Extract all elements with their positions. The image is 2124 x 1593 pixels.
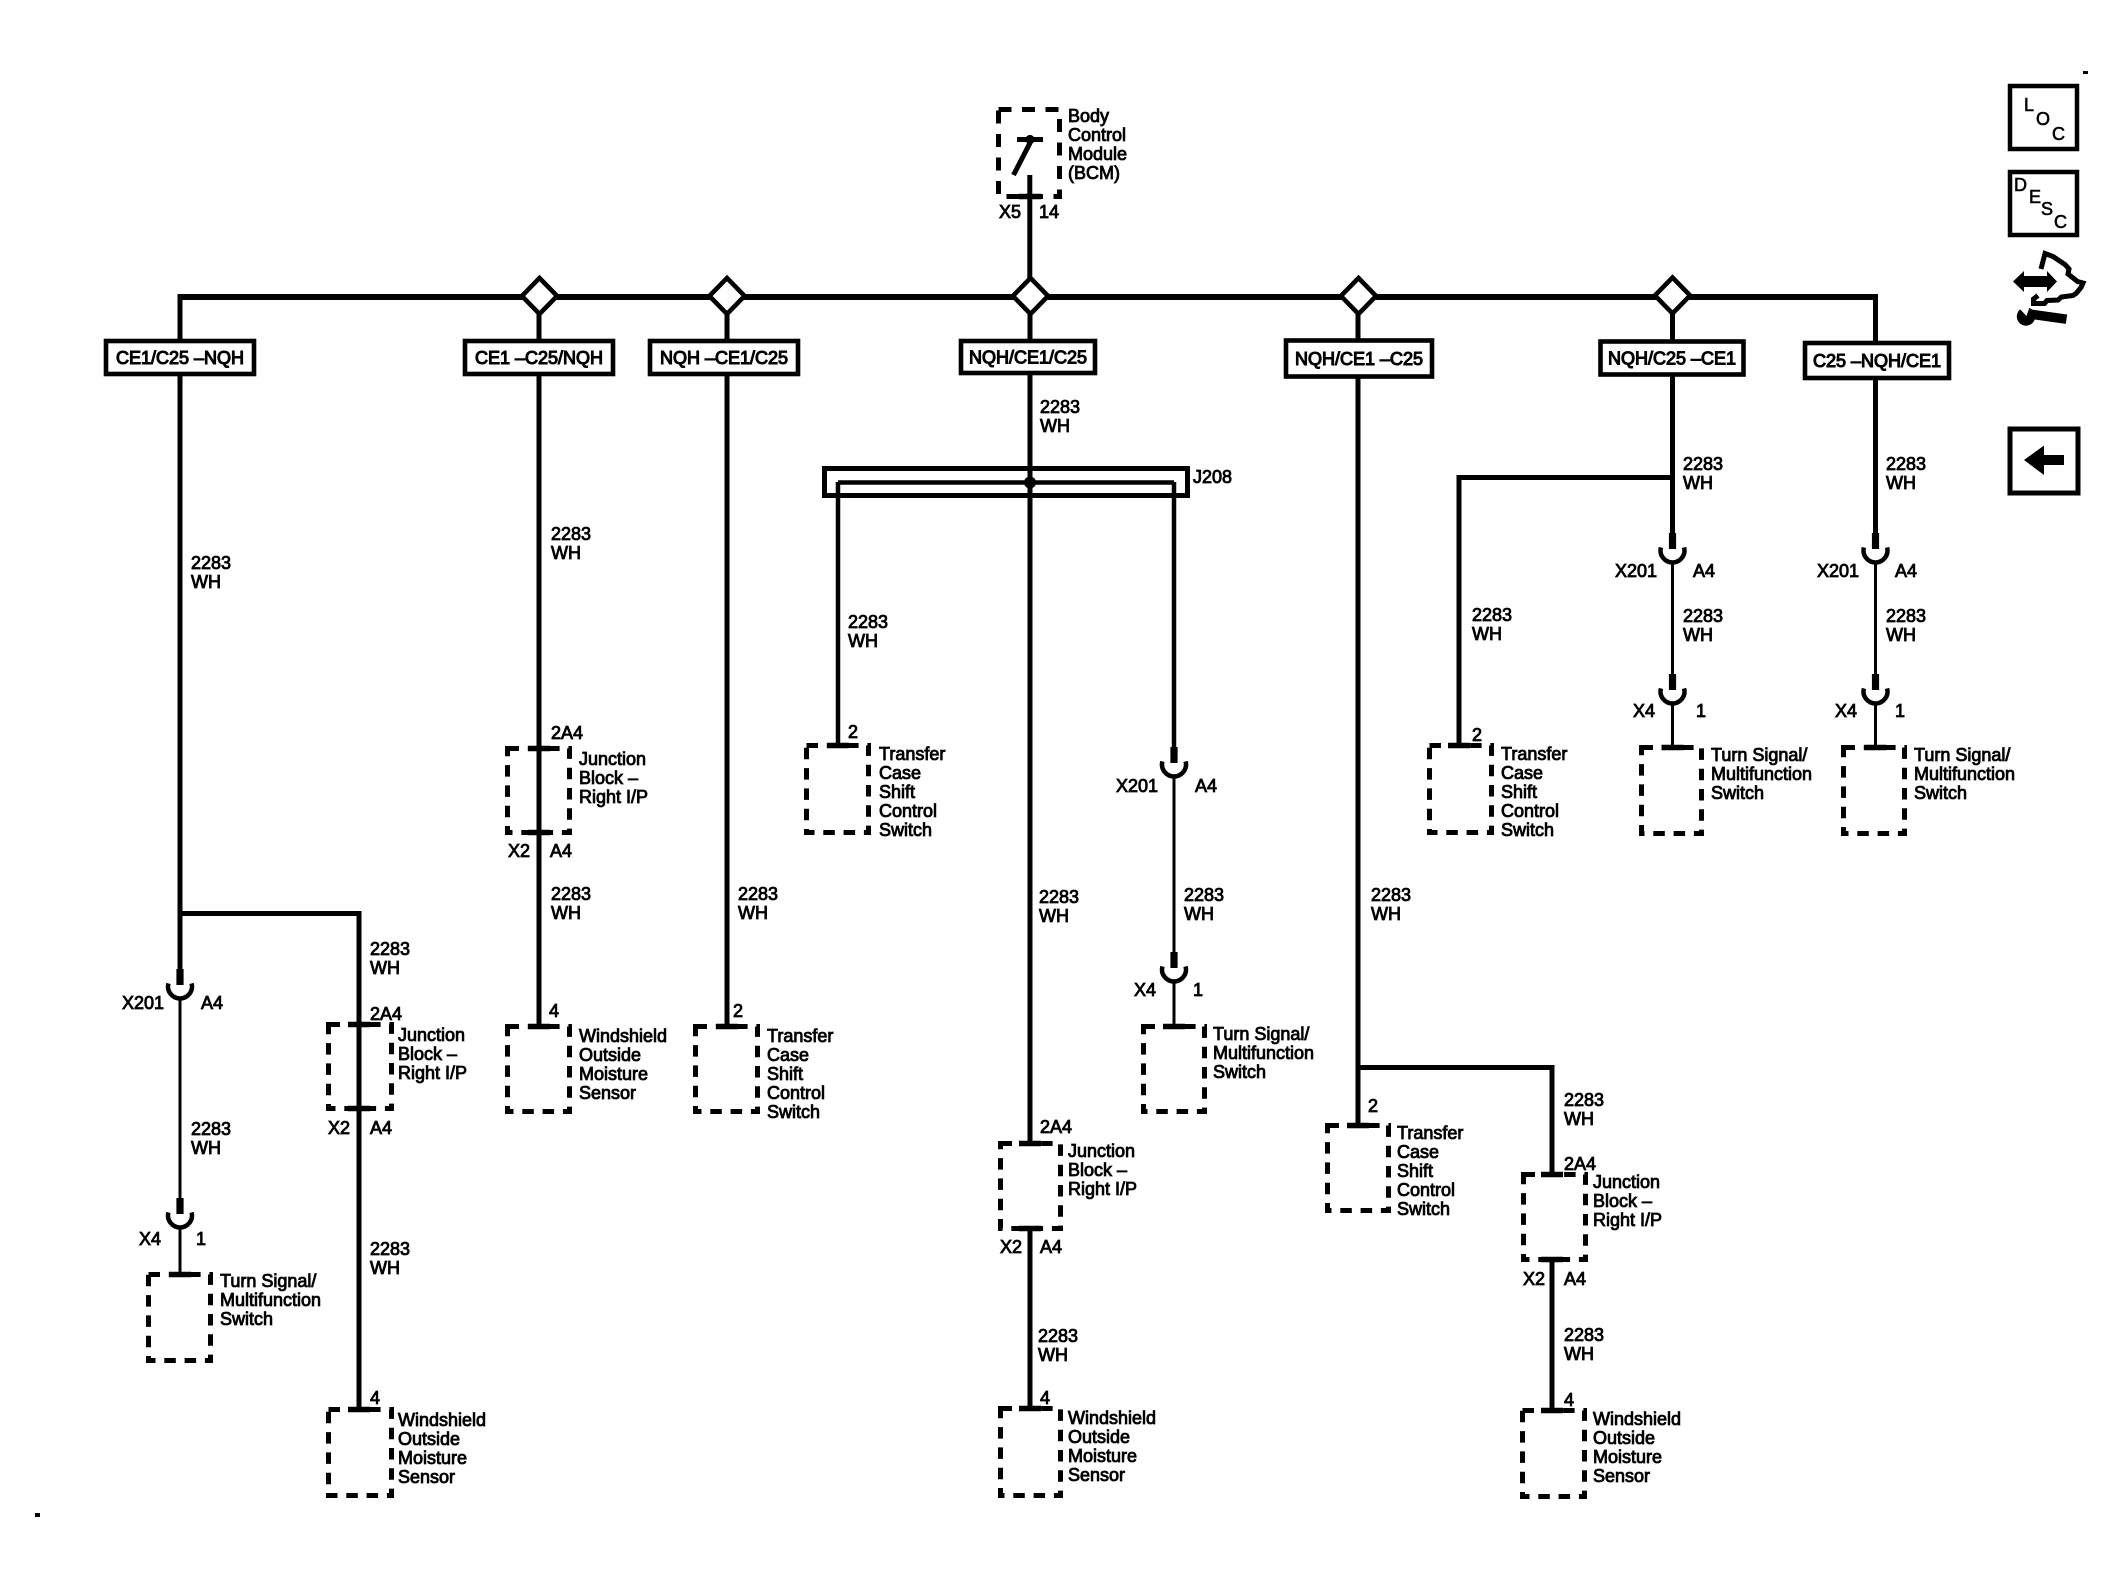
net label CE1 -C25/NQH [465, 341, 613, 374]
svg-text:WH: WH [738, 903, 768, 923]
svg-text:2283: 2283 [370, 939, 410, 959]
pin tick moisture sensor col5 branch [1541, 1408, 1563, 1414]
svg-text:X4: X4 [1835, 701, 1857, 721]
svg-text:JunctionBlock –Right I/P: JunctionBlock –Right I/P [1593, 1172, 1662, 1230]
svg-text:2A4: 2A4 [370, 1004, 402, 1024]
LOC icon box [2010, 86, 2077, 149]
BCM internal switch contact [1017, 137, 1043, 142]
pin tick transfer case col3 [716, 1024, 738, 1030]
svg-text:X2: X2 [1523, 1269, 1545, 1289]
wire col2 CE1 from bus [537, 297, 542, 1026]
junction diamond col6 [1655, 278, 1690, 314]
svg-text:2283: 2283 [1886, 606, 1926, 626]
svg-text:NQH/CE1 –C25: NQH/CE1 –C25 [1295, 349, 1423, 369]
svg-text:WH: WH [1472, 624, 1502, 644]
pin tick transfer case col4 left [827, 743, 849, 749]
connector X201 pin A4 col1 [176, 969, 183, 985]
svg-text:WH: WH [1564, 1109, 1594, 1129]
svg-text:4: 4 [370, 1388, 380, 1408]
svg-text:A4: A4 [1040, 1237, 1062, 1257]
wire col1 branch corner to moisture sensor drop [178, 911, 360, 916]
svg-text:CE1/C25 –NQH: CE1/C25 –NQH [116, 348, 244, 368]
wire col6 branch corner [1459, 475, 1670, 480]
transfer case shift control switch dashed box col6 branch [1430, 746, 1492, 833]
windshield outside moisture sensor dashed box col4 [1001, 1409, 1061, 1496]
svg-text:A4: A4 [201, 993, 223, 1013]
svg-text:S: S [2041, 199, 2053, 219]
svg-text:WH: WH [370, 958, 400, 978]
pin tick turn signal col7 [1865, 745, 1887, 751]
junction block right I/P dashed box col2 [508, 749, 570, 833]
pin tick 2A4 [348, 1022, 370, 1028]
svg-text:2283: 2283 [1886, 454, 1926, 474]
svg-text:2283: 2283 [1683, 454, 1723, 474]
connector X201 pin A4 col4 [1170, 747, 1177, 763]
svg-text:A4: A4 [370, 1118, 392, 1138]
stray dot bottom left [35, 1513, 40, 1517]
wire col1 to X201 [178, 913, 183, 969]
J208 internal bus bar [838, 480, 1174, 485]
pin tick A4 col2 [528, 830, 550, 836]
net label CE1/C25 -NQH [106, 341, 254, 374]
pin tick 2A4 col5 branch [1541, 1172, 1563, 1178]
wire col7 C25 from bus end [1873, 294, 1878, 533]
svg-text:2283: 2283 [1038, 1326, 1078, 1346]
wire X4 to turn signal switch col7 [1874, 703, 1877, 749]
svg-text:WH: WH [1039, 906, 1069, 926]
svg-text:X201: X201 [1615, 561, 1657, 581]
svg-text:WH: WH [1886, 473, 1916, 493]
svg-text:NQH/C25 –CE1: NQH/C25 –CE1 [1608, 349, 1736, 369]
junction diamond col2 [522, 278, 557, 314]
stray dot top right [2083, 71, 2088, 74]
svg-text:NQH/CE1/C25: NQH/CE1/C25 [969, 348, 1087, 368]
wire bus NQH/CE1/C25 horizontal [178, 294, 1876, 300]
net label NQH/CE1 -C25 [1286, 341, 1432, 377]
pin tick moisture sensor col2 [528, 1024, 550, 1030]
svg-text:2A4: 2A4 [1040, 1117, 1072, 1137]
connector X4 pin 1 col6 [1669, 674, 1676, 690]
svg-text:2283: 2283 [551, 884, 591, 904]
turn signal/multifunction switch dashed box col4 [1144, 1027, 1205, 1112]
windshield outside moisture sensor dashed box col1 branch [329, 1410, 392, 1496]
net label NQH/C25 -CE1 [1601, 342, 1744, 375]
wire X201 to X4 col7 [1874, 562, 1877, 675]
svg-text:2283: 2283 [1040, 397, 1080, 417]
pin tick transfer case col6 branch [1448, 743, 1470, 749]
svg-text:1: 1 [196, 1229, 206, 1249]
pin tick A4 col5 branch [1541, 1257, 1563, 1263]
svg-text:X2: X2 [1000, 1237, 1022, 1257]
DESC icon box [2010, 172, 2077, 235]
pin tick transfer case col5 [1347, 1123, 1369, 1129]
svg-text:2A4: 2A4 [551, 723, 583, 743]
junction block right I/P dashed box col4 [1001, 1144, 1061, 1229]
net label NQH -CE1/C25 [650, 341, 798, 374]
wire col6 from bus to X201 [1670, 297, 1675, 533]
pin tick A4 [348, 1106, 370, 1112]
svg-text:2283: 2283 [1039, 887, 1079, 907]
BCM pin tick [1019, 194, 1041, 200]
svg-text:WH: WH [1886, 625, 1916, 645]
wire BCM pin 14 to bus [1027, 175, 1032, 297]
pin tick moisture sensor col1 branch [348, 1407, 370, 1413]
svg-text:2283: 2283 [848, 612, 888, 632]
wire col4 through J208 [1028, 465, 1033, 500]
svg-text:2283: 2283 [1564, 1090, 1604, 1110]
wire col5 from bus to transfer case switch [1356, 297, 1361, 1125]
svg-text:WH: WH [191, 1138, 221, 1158]
wire col4 main from bus to junction block [1028, 297, 1033, 1143]
svg-text:J208: J208 [1193, 467, 1232, 487]
svg-text:1: 1 [1895, 701, 1905, 721]
svg-text:WH: WH [551, 903, 581, 923]
svg-text:2283: 2283 [191, 1119, 231, 1139]
svg-text:CE1 –C25/NQH: CE1 –C25/NQH [475, 348, 603, 368]
svg-text:X201: X201 [1116, 776, 1158, 796]
wire X4 to turn signal switch col4 [1173, 981, 1176, 1028]
svg-text:2: 2 [848, 722, 858, 742]
svg-text:A4: A4 [1195, 776, 1217, 796]
windshield outside moisture sensor dashed box col2 [508, 1027, 570, 1112]
svg-text:4: 4 [1564, 1390, 1574, 1410]
svg-text:4: 4 [549, 1001, 559, 1021]
connector X201 pin A4 col7 [1872, 533, 1879, 549]
transfer case shift control switch dashed box col5 [1328, 1126, 1389, 1211]
svg-text:2283: 2283 [1683, 606, 1723, 626]
connector X4 pin 1 col1 [176, 1198, 183, 1214]
svg-text:JunctionBlock –Right I/P: JunctionBlock –Right I/P [398, 1025, 467, 1083]
svg-text:WH: WH [1371, 904, 1401, 924]
svg-text:X4: X4 [1134, 980, 1156, 1000]
wire col1 CE1/C25 from bus [178, 294, 183, 916]
junction diamond col5 [1341, 278, 1376, 314]
wire X4 to turn signal switch col1 [179, 1227, 182, 1275]
svg-text:JunctionBlock –Right I/P: JunctionBlock –Right I/P [1068, 1141, 1137, 1199]
net label NQH/CE1/C25 [961, 341, 1095, 373]
transfer case shift control switch dashed box col4 left [807, 746, 869, 833]
svg-text:WH: WH [191, 572, 221, 592]
wire X4 to turn signal switch col6 [1671, 703, 1674, 749]
net label C25 -NQH/CE1 [1805, 343, 1949, 378]
pin tick 2A4 col2 [528, 746, 550, 752]
diagram navigation icon (double arrow, outline, wrench) [2013, 271, 2057, 292]
svg-text:14: 14 [1039, 202, 1059, 222]
svg-text:2283: 2283 [1564, 1325, 1604, 1345]
back arrow icon box [2010, 429, 2078, 493]
wire col1 branch to junction block [357, 911, 362, 1409]
svg-text:X4: X4 [1633, 701, 1655, 721]
wire J208 right branch to X201 [1172, 482, 1177, 747]
svg-text:WH: WH [370, 1258, 400, 1278]
svg-text:2A4: 2A4 [1564, 1154, 1596, 1174]
svg-text:NQH –CE1/C25: NQH –CE1/C25 [660, 348, 788, 368]
body control module (BCM) dashed box [999, 110, 1060, 197]
wire J208 left branch to transfer case switch [836, 482, 841, 745]
junction diamond col4 [1013, 278, 1048, 314]
connector X201 pin A4 col6 [1669, 533, 1676, 549]
wire X201 to X4 col6 [1671, 562, 1674, 675]
svg-text:L: L [2024, 95, 2034, 115]
svg-text:C: C [2052, 124, 2065, 144]
svg-text:WH: WH [1040, 416, 1070, 436]
wire X201 to X4 col4 [1173, 776, 1176, 953]
svg-text:WH: WH [848, 631, 878, 651]
svg-text:WH: WH [1683, 473, 1713, 493]
svg-text:X2: X2 [328, 1118, 350, 1138]
svg-text:2283: 2283 [370, 1239, 410, 1259]
svg-text:JunctionBlock –Right I/P: JunctionBlock –Right I/P [579, 749, 648, 807]
pin tick 2A4 col4 [1019, 1141, 1041, 1147]
pin tick turn signal col6 [1662, 745, 1684, 751]
svg-text:X2: X2 [508, 841, 530, 861]
svg-text:X201: X201 [122, 993, 164, 1013]
BCM switch lever [1014, 142, 1031, 175]
svg-text:1: 1 [1193, 980, 1203, 1000]
svg-text:A4: A4 [1564, 1269, 1586, 1289]
svg-text:O: O [2036, 109, 2050, 129]
junction block right I/P dashed box col1 branch [329, 1025, 392, 1109]
wire col5 branch junction block to moisture sensor [1550, 1259, 1555, 1410]
svg-text:D: D [2014, 175, 2027, 195]
svg-text:WH: WH [1184, 904, 1214, 924]
svg-text:E: E [2029, 187, 2041, 207]
turn signal/multifunction switch dashed box col6 [1642, 748, 1702, 834]
wire col3 NQH from bus [725, 297, 730, 1026]
svg-text:2: 2 [1472, 725, 1482, 745]
turn signal/multifunction switch dashed box col7 [1844, 748, 1905, 834]
pin tick A4 col4 [1019, 1226, 1041, 1232]
svg-text:WH: WH [1038, 1345, 1068, 1365]
pin tick moisture sensor col4 [1019, 1406, 1041, 1412]
svg-text:1: 1 [1696, 701, 1706, 721]
wire col5 branch corner [1358, 1065, 1552, 1070]
svg-text:C: C [2054, 212, 2067, 232]
turn signal/multifunction switch S1 dashed box [149, 1275, 211, 1361]
svg-text:2283: 2283 [738, 884, 778, 904]
pin tick turn signal col4 [1163, 1024, 1185, 1030]
svg-text:WH: WH [1564, 1344, 1594, 1364]
splice pack J208 outer box [825, 469, 1188, 496]
svg-text:4: 4 [1040, 1388, 1050, 1408]
svg-text:C25 –NQH/CE1: C25 –NQH/CE1 [1813, 351, 1941, 371]
wire col4 junction block to moisture sensor [1028, 1228, 1033, 1409]
svg-text:2283: 2283 [1371, 885, 1411, 905]
svg-text:2283: 2283 [551, 524, 591, 544]
wire col6 branch to transfer case switch [1457, 475, 1462, 745]
wire X201 to X4 col1 [179, 998, 182, 1199]
junction block right I/P dashed box col5 branch [1524, 1175, 1586, 1260]
wire col5 branch to junction block [1550, 1065, 1555, 1174]
svg-text:2283: 2283 [1184, 885, 1224, 905]
connector X4 pin 1 col4 [1170, 952, 1177, 968]
svg-text:2: 2 [733, 1001, 743, 1021]
svg-text:X5: X5 [999, 202, 1021, 222]
svg-text:WH: WH [551, 543, 581, 563]
transfer case shift control switch dashed box col3 [696, 1027, 758, 1112]
svg-text:A4: A4 [1693, 561, 1715, 581]
svg-text:2283: 2283 [1472, 605, 1512, 625]
svg-text:A4: A4 [550, 841, 572, 861]
windshield outside moisture sensor dashed box col5 branch [1523, 1411, 1585, 1497]
svg-text:X201: X201 [1817, 561, 1859, 581]
svg-text:X4: X4 [139, 1229, 161, 1249]
connector X4 pin 1 col7 [1872, 674, 1879, 690]
pin tick turn signal col1 [169, 1272, 191, 1278]
junction dot J208 [1024, 477, 1036, 489]
svg-text:2: 2 [1368, 1096, 1378, 1116]
svg-text:WH: WH [1683, 625, 1713, 645]
junction diamond col3 [709, 278, 744, 314]
svg-text:2283: 2283 [191, 553, 231, 573]
svg-text:A4: A4 [1895, 561, 1917, 581]
